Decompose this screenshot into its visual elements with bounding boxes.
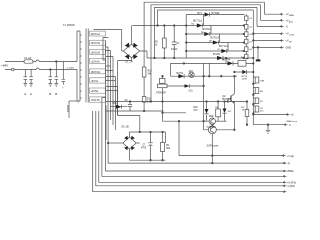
wire rail5 y51 — [186, 50, 244, 52]
wire bottom out 5 — [96, 145, 284, 186]
junction r1 bottom — [164, 57, 166, 59]
label sup — [207, 146, 219, 148]
svg-text:+5V/5A: +5V/5A — [91, 90, 99, 93]
junction rail ends — [243, 25, 244, 26]
ground A2 — [29, 84, 33, 97]
junction r11 bottom — [143, 110, 145, 112]
bead L16 — [245, 54, 254, 59]
transformer T1 core — [86, 29, 88, 103]
diode D17 — [242, 70, 248, 81]
wire tap4a — [103, 59, 105, 61]
junction gnd — [257, 47, 259, 49]
svg-text:-L (R/A): -L (R/A) — [287, 185, 295, 188]
bead L12 — [245, 25, 248, 32]
wire tap6a — [105, 80, 115, 82]
capacitor CA1 — [24, 70, 28, 84]
wire q45 cross — [210, 123, 214, 127]
svg-text:15V/0.5A: 15V/0.5A — [91, 42, 101, 45]
staircase bus riser — [185, 15, 187, 59]
wire bottom out 6 — [93, 150, 284, 192]
svg-text:MAIN: MAIN — [289, 14, 294, 17]
wire tap2a — [104, 41, 106, 106]
transformer T1 label — [63, 23, 75, 27]
junction sb4 — [185, 50, 187, 52]
wire tap6b — [106, 87, 118, 116]
junction bead bus — [253, 57, 255, 59]
svg-text:-R: -R — [288, 163, 291, 165]
svg-text:+U (R/A): +U (R/A) — [287, 182, 296, 185]
junction input top2 — [56, 61, 58, 63]
wire left edge control — [170, 63, 172, 76]
svg-text:D1..D4: D1..D4 — [126, 62, 134, 64]
junction ctl2 — [203, 75, 205, 77]
wire top corner 1 — [144, 2, 281, 62]
resistor stack R2 — [142, 62, 152, 77]
svg-text:1R: 1R — [242, 110, 245, 112]
svg-text:VRMA: VRMA — [287, 170, 294, 173]
resistor R8 — [215, 102, 220, 122]
svg-text:F1 2A: F1 2A — [25, 57, 32, 60]
junction r8 top — [217, 101, 219, 103]
junction b2b1 — [150, 159, 152, 161]
terminal 6 wire GND — [253, 47, 281, 60]
svg-text:40V/0.1A: 40V/0.1A — [91, 33, 101, 36]
svg-text:+12V/1A: +12V/1A — [91, 61, 100, 64]
capacitor CB1 — [49, 70, 53, 84]
wire input bottom line — [5, 68, 77, 70]
wire rail6 y58 — [147, 57, 245, 59]
junction w2 — [150, 101, 152, 103]
svg-text:BYW80: BYW80 — [212, 13, 221, 15]
wire bridge1 right out — [140, 51, 147, 58]
svg-text:15V/0.5A: 15V/0.5A — [91, 51, 101, 54]
wire q2 base — [228, 99, 231, 102]
svg-text:SUP/Loose: SUP/Loose — [207, 146, 219, 148]
junction c1 bottom — [173, 57, 175, 59]
wire left feed down — [179, 121, 283, 155]
wire bundle feeders — [93, 111, 99, 150]
bead L14 — [245, 39, 248, 47]
wire bottom out 4 — [99, 140, 284, 182]
svg-text:D16: D16 — [194, 107, 199, 109]
svg-text:BUT11a: BUT11a — [203, 29, 212, 31]
svg-text:B: B — [49, 92, 51, 96]
junction tl bottom — [162, 101, 164, 103]
junction c1 top — [173, 25, 175, 27]
wire tap1b — [103, 38, 109, 61]
wire riser s2 — [203, 15, 205, 26]
wire bridge2 rail bottom — [130, 159, 166, 161]
junction ctl1 — [183, 63, 185, 65]
wire riser s5 — [227, 43, 229, 52]
wire tap3b — [105, 57, 113, 126]
svg-text:47V: 47V — [194, 110, 199, 112]
svg-text:B: B — [55, 92, 57, 96]
svg-text:-V: -V — [286, 25, 289, 28]
diode D10 — [213, 54, 223, 60]
junction q2 — [234, 75, 236, 77]
zener D16 — [194, 102, 209, 122]
wire top corner 4 — [158, 10, 282, 68]
resistor R1 — [155, 26, 166, 58]
svg-text:A: A — [24, 92, 26, 96]
svg-text:3R3: 3R3 — [166, 148, 171, 150]
capacitor CA2 — [29, 70, 33, 84]
junction sb3 — [185, 42, 187, 44]
svg-text:1u2: 1u2 — [241, 56, 244, 58]
junction sb1 — [185, 25, 187, 27]
ground B2 — [55, 84, 59, 97]
svg-text:BUT 11a: BUT 11a — [193, 21, 203, 23]
svg-text:4700: 4700 — [141, 148, 147, 150]
wire main dc rail y25.5 — [132, 25, 186, 27]
wire jog y112.8 — [163, 112, 187, 114]
wire bridge1 top feed — [131, 26, 133, 45]
junction r7 bottom — [246, 124, 248, 126]
wire tap1 to bridge1 — [94, 30, 124, 52]
junction snub1 — [129, 101, 131, 103]
zener D18 — [223, 102, 233, 122]
secondary tap labels — [91, 33, 101, 102]
wire tap4b — [105, 65, 110, 67]
wire tap3a — [105, 51, 110, 121]
pass transistor Q4 — [209, 116, 216, 124]
wire top corner 2 — [151, 5, 281, 102]
resistor RC5 — [253, 106, 264, 113]
resistor RC3 — [253, 88, 264, 94]
wire riser x209.3 — [208, 63, 210, 76]
wire emitter down — [211, 134, 213, 163]
capacitor CY — [62, 62, 65, 90]
bead L11 — [245, 15, 248, 25]
diode stage4 — [209, 37, 219, 45]
svg-text:1u2: 1u2 — [249, 34, 252, 36]
ground blob — [256, 59, 261, 61]
wire row y72 — [234, 71, 253, 73]
wire base2 — [204, 121, 209, 130]
svg-text:D4R: D4R — [260, 81, 265, 83]
terminal V sense arrow — [286, 113, 298, 122]
svg-text:Tx WX09: Tx WX09 — [63, 23, 75, 27]
wire base feed — [163, 120, 210, 122]
node +48V input label — [1, 64, 8, 68]
svg-text:1u2: 1u2 — [249, 41, 252, 43]
junction bus t4 — [253, 33, 255, 35]
svg-text:1u2: 1u2 — [249, 27, 252, 29]
fuse F1 — [24, 57, 33, 63]
svg-text:BY2: BY2 — [198, 13, 203, 15]
wire bridge2 ac feed — [118, 61, 140, 133]
junction bus t5 — [253, 40, 255, 42]
capacitor C5 — [125, 100, 133, 111]
wire rail3 y34 — [186, 33, 244, 35]
wire tap8a — [102, 98, 106, 136]
terminal labels right top — [286, 13, 296, 49]
wire tap5a — [105, 70, 113, 72]
ground B1 — [49, 84, 53, 97]
junction led — [203, 85, 205, 87]
junction rc dots — [253, 83, 255, 85]
junction zener d16 top — [206, 101, 208, 103]
junction w4 — [157, 25, 159, 27]
inductor L2 — [233, 61, 253, 67]
capacitor CB2 — [55, 62, 59, 84]
diode D12 BUT/A — [176, 72, 184, 78]
wire tap5b — [105, 77, 115, 131]
svg-text:D5..D8: D5..D8 — [122, 127, 130, 129]
diode stage3 — [201, 29, 211, 36]
ground A1 — [24, 84, 28, 97]
bead L15 — [245, 47, 248, 54]
junction b2b2 — [162, 159, 164, 161]
resistor stack R3 — [142, 77, 151, 111]
transformer T1 secondary winding boxes — [90, 31, 106, 102]
diode stage5 — [218, 46, 229, 53]
junction L2 bus — [253, 63, 255, 65]
capacitor C1 — [171, 26, 180, 58]
wire riser s3 — [210, 26, 212, 35]
wire bottom out 1 — [108, 111, 284, 163]
junction q2 rail72 — [234, 71, 236, 73]
svg-text:15V/0.5A: 15V/0.5A — [91, 71, 101, 74]
transformer shield wire — [67, 101, 77, 118]
junction base left riser — [178, 120, 180, 122]
wire tap2b — [105, 47, 108, 111]
svg-text:J7RXXER: J7RXXER — [155, 93, 166, 95]
wire rail y63.4 — [171, 62, 228, 64]
wire bridge2 bottom — [129, 151, 131, 161]
wire tap7a — [106, 90, 118, 92]
terminal labels bottom right — [287, 156, 296, 188]
svg-text:D15: D15 — [113, 103, 118, 105]
junction riser209 — [209, 75, 211, 77]
terminal +5 out — [253, 124, 285, 126]
svg-text:+S: +S — [291, 115, 294, 117]
diode stage2 — [192, 21, 203, 28]
junction emitter bottom — [212, 162, 214, 164]
svg-text:VRA/Loose: VRA/Loose — [286, 120, 298, 123]
diode D11 BUT/PA — [222, 59, 233, 66]
resistor R9 — [161, 132, 171, 160]
svg-text:BUT11A: BUT11A — [223, 98, 232, 101]
junction r1 top — [164, 25, 166, 27]
wire riser s4 — [219, 34, 221, 43]
resistor RC2 — [253, 77, 264, 84]
junction tl top — [162, 75, 164, 77]
svg-text:U 230V: U 230V — [67, 67, 75, 69]
junction d17 bus — [253, 71, 255, 73]
transistor Q2 — [223, 76, 235, 130]
junction bridge2 left — [107, 142, 109, 144]
junction r7 top — [246, 101, 248, 103]
terminal arrows bottom right — [282, 155, 286, 193]
wire bottom link — [136, 132, 165, 143]
wire to row y63.4 — [225, 58, 227, 63]
terminal +5 arrow — [284, 124, 291, 127]
resistor RC4 — [253, 98, 263, 104]
switch contact circle — [12, 68, 15, 71]
svg-text:+48V: +48V — [1, 64, 8, 68]
junction vsense — [253, 114, 255, 116]
junction b2t2 — [150, 131, 152, 133]
svg-text:R10: R10 — [148, 71, 153, 73]
wire bottom out 3 — [102, 135, 284, 176]
svg-text:42VR: 42VR — [242, 78, 248, 80]
svg-text:CONT: CONT — [289, 35, 295, 37]
terminal arrows right top — [280, 13, 283, 48]
junction riser3 — [154, 57, 156, 59]
svg-text:R11: R11 — [147, 99, 152, 101]
junction bus t6 — [253, 47, 255, 49]
wire bridge2 rail top — [130, 131, 166, 133]
junction b2t3 — [162, 131, 164, 133]
junction sb2 — [185, 33, 187, 35]
bead labels — [241, 18, 252, 58]
svg-text:470uF: 470uF — [171, 49, 178, 51]
wire bus continue — [252, 68, 254, 125]
svg-text:1u2: 1u2 — [249, 18, 252, 20]
wire bottom out 2 — [106, 106, 285, 172]
svg-text:MJE: MJE — [209, 116, 214, 118]
trimpot ADJ — [189, 70, 195, 78]
junction emitter mid — [212, 155, 214, 157]
svg-text:-5V/0.5A: -5V/0.5A — [91, 99, 100, 102]
junction b2t1 — [139, 131, 141, 133]
bridge rectifier D1-D4 — [123, 43, 139, 64]
junction row64 — [225, 57, 227, 59]
led D13 — [167, 84, 204, 92]
wire q4 right to r8 zener — [216, 120, 227, 122]
transformer T1 pin2 label — [78, 102, 80, 104]
bead L13 — [245, 32, 248, 39]
svg-text:BUT11A: BUT11A — [211, 37, 220, 40]
wire rail1 y14.5 — [186, 14, 244, 16]
wire top corner 3 — [155, 7, 282, 58]
terminal 5 wire — [253, 40, 281, 42]
wire tap7b rail A — [106, 101, 247, 103]
diode stage1 — [198, 12, 221, 16]
svg-text:1u2: 1u2 — [249, 49, 252, 51]
wire tl431 lower — [162, 102, 164, 122]
svg-text:BUT/PA: BUT/PA — [222, 59, 231, 62]
wire bridge1 bottom return — [118, 58, 132, 61]
wire rail4 y42.5 — [186, 42, 244, 44]
diode D15 — [110, 103, 127, 109]
regulator TL431 — [155, 76, 167, 101]
wire bridge2 top — [129, 132, 131, 136]
svg-text:screen: screen — [67, 104, 70, 112]
junction base — [203, 120, 205, 122]
resistor R7 — [242, 102, 249, 125]
pass transistor Q5 — [207, 126, 217, 134]
junction ctl3 — [221, 75, 223, 77]
junction collector — [234, 129, 236, 131]
wire input top line — [5, 60, 77, 62]
svg-text:+V adj: +V adj — [287, 156, 294, 158]
svg-text:ADJ: ADJ — [189, 70, 193, 73]
wire rail2 y25.5 — [186, 25, 244, 27]
bridge rectifier D5-D8 — [122, 127, 137, 151]
wire bridge2 left — [108, 142, 123, 144]
svg-text:A: A — [30, 92, 32, 96]
svg-text:BUT/A: BUT/A — [176, 72, 183, 75]
svg-text:BUT 11a: BUT 11a — [219, 46, 229, 48]
terminal V sense — [253, 113, 287, 115]
wire q5 collector join — [216, 129, 234, 131]
svg-text:GND: GND — [286, 46, 292, 49]
transformer T1 primary — [67, 31, 82, 101]
svg-text:BY299: BY299 — [213, 54, 221, 56]
svg-text:C51: C51 — [189, 91, 194, 93]
ground -S — [266, 124, 271, 133]
wire rail B lower — [106, 106, 164, 141]
junction zener d18 top — [224, 101, 226, 103]
capacitor C7 — [141, 132, 153, 160]
junction jog — [162, 112, 164, 114]
junction q2 base — [227, 101, 229, 103]
wire riser x203.6 — [203, 63, 205, 121]
wire rail y76.2 — [171, 75, 238, 77]
svg-text:+5V/1A: +5V/1A — [91, 80, 99, 83]
